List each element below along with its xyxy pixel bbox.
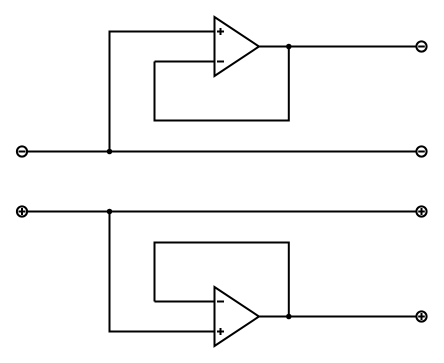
terminal T5 (+ rail, right)	[416, 206, 426, 216]
op-amp U1	[215, 17, 260, 76]
wire (U2 output)	[259, 316, 416, 318]
op-amp U2	[215, 287, 260, 346]
node (U1 output junction)	[286, 44, 292, 50]
wire (negative rail, node N−)	[28, 151, 417, 153]
terminal T2 (− rail, right)	[416, 146, 426, 156]
terminal T6 (+ output, bottom right)	[416, 311, 426, 321]
terminal T4 (+ input, left)	[17, 206, 27, 216]
wire (U2 feedback loop)	[155, 243, 289, 317]
wire (U1 output)	[259, 46, 416, 48]
wire (U1 feedback loop)	[155, 47, 289, 121]
terminal T1 (− input, left)	[17, 146, 27, 156]
wire (to U1 + input)	[110, 32, 215, 152]
wire (U1 − input)	[155, 61, 215, 63]
terminal T3 (− output, top right)	[416, 41, 426, 51]
junction on negative rail	[107, 149, 113, 155]
wire (U2 − input)	[155, 301, 215, 303]
wire (positive rail, node N+)	[28, 211, 417, 213]
node (U2 output junction)	[286, 314, 292, 320]
wire (to U2 + input)	[110, 212, 215, 332]
junction on positive rail	[107, 209, 113, 215]
